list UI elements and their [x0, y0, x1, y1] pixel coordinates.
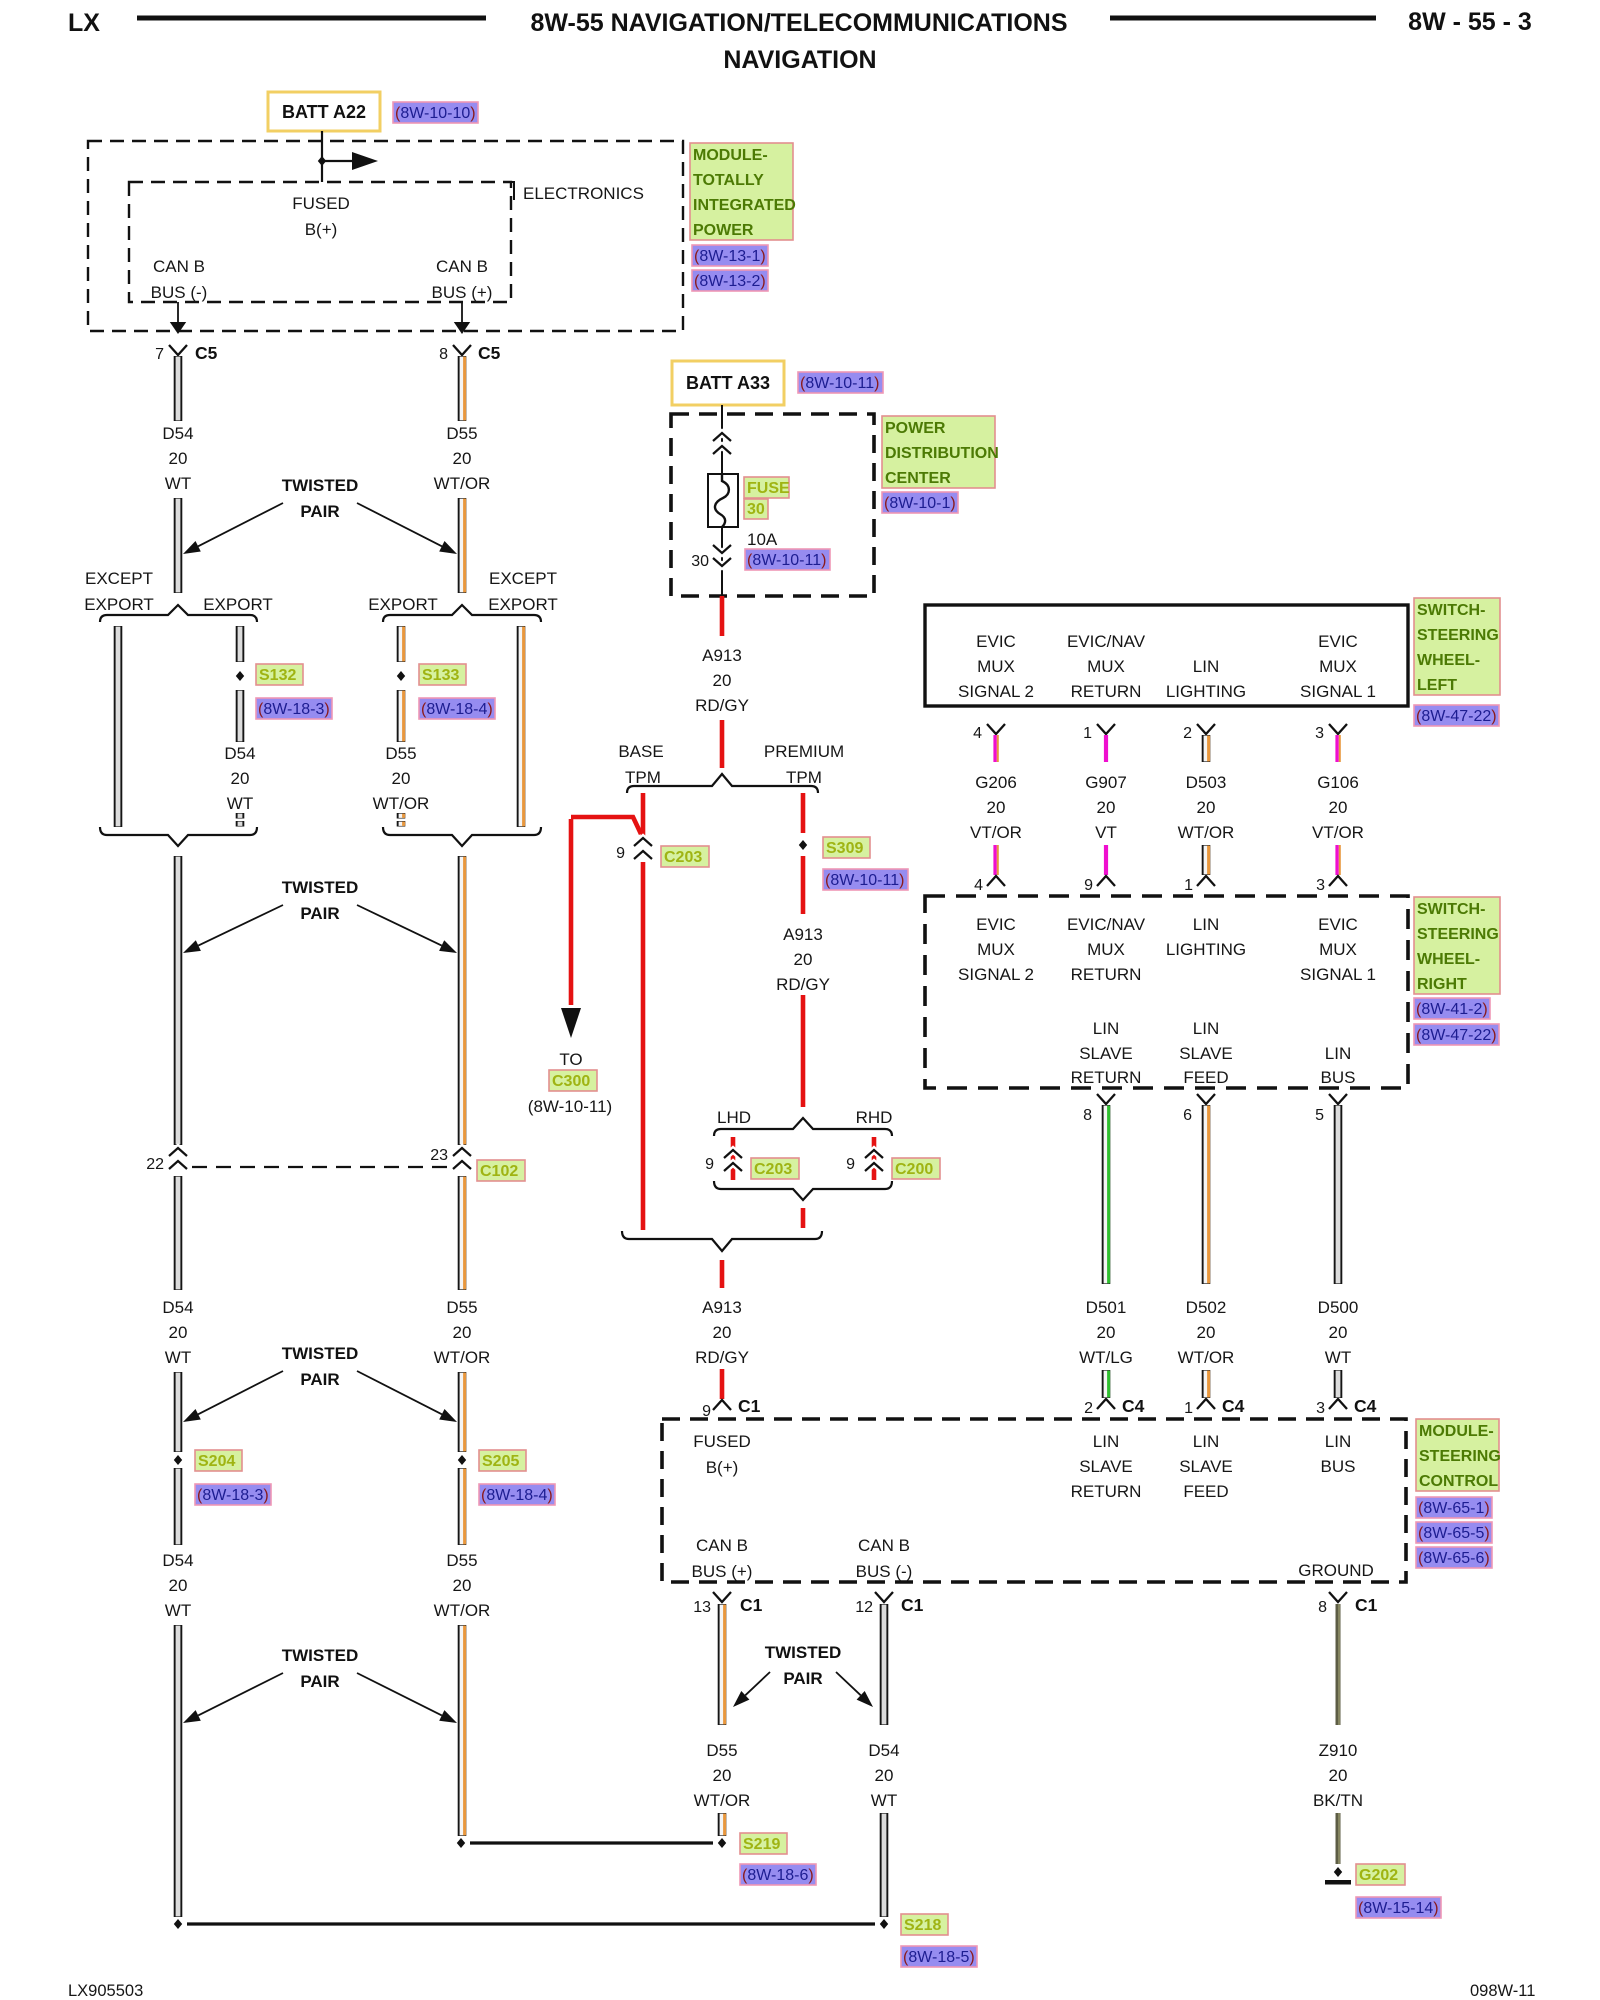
label S309 [823, 837, 870, 858]
wire RHD stub [872, 1137, 877, 1180]
ref label (8W-18-4) [419, 698, 495, 719]
wire D500 [1334, 1105, 1343, 1284]
wire G106 lower segment [1337, 845, 1340, 875]
svg-text:LIN: LIN [1193, 1019, 1219, 1038]
svg-text:WT/OR: WT/OR [1178, 1348, 1235, 1367]
wire D55 export dashed stub [401, 813, 404, 827]
svg-text:2: 2 [1084, 1400, 1093, 1417]
label TWISTED PAIR can [765, 1643, 842, 1688]
brace split D55 [383, 605, 541, 622]
svg-text:D55: D55 [385, 744, 416, 763]
brace merge D55 [383, 827, 541, 846]
connector C4 pin 2 [1084, 1396, 1145, 1417]
svg-text:(8W-18-6): (8W-18-6) [742, 1867, 814, 1884]
svg-text:TWISTED: TWISTED [282, 476, 359, 495]
label S218 [901, 1914, 948, 1935]
svg-text:D55: D55 [706, 1741, 737, 1760]
wire A913 premium long [801, 995, 806, 1107]
svg-text:D500: D500 [1318, 1298, 1359, 1317]
splice S204 [174, 1455, 182, 1465]
fuse F30 [708, 474, 738, 527]
svg-text:BK/TN: BK/TN [1313, 1791, 1363, 1810]
svg-text:EVIC/NAV: EVIC/NAV [1067, 915, 1146, 934]
splice S219 junction left [457, 1838, 465, 1848]
wire D55 segment [462, 356, 465, 421]
svg-text:3: 3 [1315, 725, 1324, 742]
arrow twisted pair bottom to D55 [357, 1673, 457, 1723]
header rule left [137, 16, 486, 21]
svg-text:EXCEPT: EXCEPT [489, 569, 557, 588]
module switch-steering wheel right dashed box [925, 896, 1408, 1088]
wire A913 base branch [641, 793, 646, 836]
svg-text:CENTER: CENTER [885, 470, 951, 487]
wire BATT A22 feed [321, 131, 323, 182]
ref label (8W-18-3) [256, 698, 332, 719]
svg-text:098W-11: 098W-11 [1470, 1982, 1535, 2000]
label EXCEPT EXPORT left [84, 569, 154, 614]
svg-text:POWER: POWER [885, 420, 946, 437]
connector pin 4 switch right top [974, 876, 1005, 894]
svg-text:9: 9 [705, 1156, 714, 1173]
svg-text:20: 20 [169, 449, 188, 468]
wire D55 can+ stub [722, 1813, 725, 1836]
arrow twisted pair to D54 [183, 503, 283, 554]
wire D55 segment [462, 1468, 465, 1545]
connector pin 6 below switch right [1183, 1094, 1215, 1124]
svg-text:30: 30 [691, 553, 709, 570]
splice S218 link wire [187, 1922, 875, 1925]
ref label (8W-18-5) [901, 1946, 977, 1967]
svg-text:EVIC: EVIC [1318, 632, 1358, 651]
svg-text:(8W-10-11): (8W-10-11) [800, 375, 879, 392]
svg-text:BASE: BASE [618, 742, 663, 761]
arrow twisted pair mid to D54 [183, 905, 283, 953]
svg-text:D55: D55 [446, 1298, 477, 1317]
splice S205 [458, 1455, 466, 1465]
svg-text:LIN: LIN [1093, 1019, 1119, 1038]
svg-text:(8W-13-1): (8W-13-1) [694, 248, 766, 265]
label BASE TPM [618, 742, 663, 787]
svg-text:TWISTED: TWISTED [282, 1646, 359, 1665]
label RHD [856, 1108, 893, 1127]
svg-text:Z910: Z910 [1319, 1741, 1358, 1760]
svg-text:(8W-10-11): (8W-10-11) [528, 1097, 612, 1116]
svg-text:C4: C4 [1222, 1396, 1245, 1416]
svg-text:D54: D54 [224, 744, 255, 763]
svg-text:B(+): B(+) [305, 220, 338, 239]
label TWISTED PAIR bottom [282, 1646, 359, 1691]
module TIPM inner dashed box [129, 182, 511, 302]
svg-text:CAN B: CAN B [858, 1536, 910, 1555]
connector C1 pin 9 [702, 1396, 761, 1420]
svg-text:LIN: LIN [1193, 657, 1219, 676]
label LIN SLAVE FEED [1179, 1019, 1233, 1087]
arrow twisted pair to D54 can [836, 1672, 873, 1707]
svg-text:STEERING: STEERING [1417, 627, 1499, 644]
module steering control dashed box [662, 1419, 1406, 1582]
svg-text:WT: WT [165, 1601, 191, 1620]
connector C5 pin 8 [439, 343, 501, 363]
ref label (8W-65-6) [1416, 1547, 1492, 1568]
connector C1 pin 13 [693, 1592, 762, 1616]
module TIPM outer dashed box [88, 141, 683, 331]
svg-text:20: 20 [169, 1323, 188, 1342]
svg-text:FEED: FEED [1183, 1482, 1228, 1501]
connector pin 3 switch right top [1316, 876, 1347, 894]
connector pin 1 switch left [1083, 724, 1115, 742]
svg-text:WT: WT [1325, 1348, 1351, 1367]
svg-text:(8W-10-11): (8W-10-11) [825, 872, 904, 889]
svg-text:20: 20 [1097, 1323, 1116, 1342]
svg-text:(8W-18-3): (8W-18-3) [258, 701, 330, 718]
svg-text:B(+): B(+) [706, 1458, 739, 1477]
svg-text:PAIR: PAIR [783, 1669, 822, 1688]
svg-text:CAN B: CAN B [153, 257, 205, 276]
svg-text:9: 9 [616, 845, 625, 862]
svg-text:A913: A913 [702, 646, 742, 665]
label CAN B BUS (+) msc [692, 1536, 753, 1581]
svg-text:S133: S133 [422, 667, 459, 684]
arrow down to pin 8 [454, 302, 470, 334]
green label MODULE-TOTALLY INTEGRATED POWER [690, 143, 796, 240]
wire G206 lower segment [995, 845, 998, 875]
label D54 20 WT [162, 1298, 193, 1367]
svg-text:12: 12 [855, 1599, 873, 1616]
label EVIC/NAV MUX RETURN left [1067, 632, 1146, 701]
label D54 20 WT can [868, 1741, 899, 1810]
svg-text:(8W-41-2): (8W-41-2) [1416, 1001, 1488, 1018]
svg-text:20: 20 [1329, 798, 1348, 817]
wire D54 segment [174, 498, 183, 593]
module switch-steering wheel left box [925, 605, 1408, 706]
label LHD [717, 1108, 751, 1127]
wire A913 to C300 [569, 819, 574, 1005]
svg-text:WT/LG: WT/LG [1079, 1348, 1133, 1367]
label 10A [747, 530, 778, 549]
svg-text:D502: D502 [1186, 1298, 1227, 1317]
green label MODULE-STEERING CONTROL [1416, 1419, 1501, 1491]
svg-text:23: 23 [430, 1147, 448, 1164]
label S132 [256, 664, 303, 685]
svg-text:(8W-47-22): (8W-47-22) [1416, 1027, 1497, 1044]
connector pin 5 below switch right [1315, 1094, 1347, 1124]
connector pin 9 switch right top [1084, 876, 1115, 894]
svg-text:C200: C200 [895, 1161, 933, 1178]
wire D55 can+ [722, 1604, 725, 1725]
label G907 20 VT [1085, 773, 1127, 842]
svg-text:LEFT: LEFT [1417, 677, 1457, 694]
svg-text:S218: S218 [904, 1917, 941, 1934]
svg-text:PAIR: PAIR [300, 1672, 339, 1691]
connector C5 pin 7 [155, 343, 218, 363]
wire D55 segment [462, 1176, 465, 1290]
label C102 [477, 1160, 525, 1181]
svg-text:6: 6 [1183, 1107, 1192, 1124]
svg-text:20: 20 [453, 449, 472, 468]
svg-text:20: 20 [453, 1323, 472, 1342]
svg-text:BUS (-): BUS (-) [856, 1562, 913, 1581]
label A913 20 RD/GY merged [695, 1298, 749, 1367]
svg-text:LHD: LHD [717, 1108, 751, 1127]
label D55 20 WT/OR [434, 424, 491, 493]
splice S132 [236, 671, 244, 681]
label D503 20 WT/OR [1178, 773, 1235, 842]
ref label (8W-10-1) [882, 492, 958, 513]
wire Z910 ground [1338, 1604, 1339, 1725]
label GROUND [1298, 1561, 1374, 1580]
header subtitle NAVIGATION [723, 46, 876, 74]
wire Z910 stub [1338, 1813, 1339, 1864]
svg-text:RIGHT: RIGHT [1417, 976, 1467, 993]
connector pin 30 chevrons [691, 545, 731, 570]
svg-text:WT: WT [227, 794, 253, 813]
wire D501 [1106, 1105, 1109, 1284]
connector C1 pin 8 [1318, 1592, 1378, 1616]
connector C203 pin 9 base [616, 838, 652, 862]
svg-text:VT/OR: VT/OR [970, 823, 1022, 842]
label C203 LHD [751, 1158, 799, 1179]
brace merge TPM [622, 1231, 822, 1251]
header page number 8W - 55 - 3 [1408, 8, 1532, 36]
svg-text:WT/OR: WT/OR [694, 1791, 751, 1810]
arrow twisted pair to D55 [357, 503, 457, 554]
connector pin 8 below switch right [1083, 1094, 1115, 1124]
label LIN SLAVE RETURN msc [1071, 1432, 1142, 1501]
label D54 20 WT export [224, 744, 255, 813]
connector chevrons battery feed [713, 433, 731, 454]
svg-text:D501: D501 [1086, 1298, 1127, 1317]
svg-text:GROUND: GROUND [1298, 1561, 1374, 1580]
ref label (8W-10-10) [393, 102, 478, 123]
svg-text:(8W-18-5): (8W-18-5) [903, 1949, 975, 1966]
svg-text:SIGNAL 1: SIGNAL 1 [1300, 682, 1376, 701]
ref label (8W-47-22) right [1414, 1024, 1499, 1045]
svg-text:STEERING: STEERING [1417, 926, 1499, 943]
svg-text:WT: WT [165, 474, 191, 493]
svg-text:MUX: MUX [977, 940, 1015, 959]
wire A913 to C1 [720, 1369, 725, 1399]
svg-text:1: 1 [1184, 877, 1193, 894]
module PDC dashed box [671, 414, 874, 596]
label FUSE 30 [744, 477, 790, 519]
green label POWER DISTRIBUTION CENTER [882, 416, 999, 488]
ground G202 [1325, 1867, 1351, 1885]
wire D54 except-export branch [114, 626, 123, 827]
wire A913 premium branch [801, 793, 806, 833]
label LIN SLAVE RETURN [1071, 1019, 1142, 1087]
wire D54 segment [174, 356, 183, 421]
svg-text:(8W-47-22): (8W-47-22) [1416, 708, 1497, 725]
wire D55 export branch [401, 626, 404, 662]
label LIN BUS msc [1321, 1432, 1356, 1476]
svg-text:C102: C102 [480, 1163, 518, 1180]
label D54 20 WT [162, 424, 193, 493]
svg-text:G907: G907 [1085, 773, 1127, 792]
svg-text:RHD: RHD [856, 1108, 893, 1127]
svg-text:MUX: MUX [1319, 940, 1357, 959]
brace split D54 [100, 605, 257, 622]
label D502 20 WT/OR [1178, 1298, 1235, 1367]
splice S133 [397, 671, 405, 681]
label S133 [419, 664, 466, 685]
label D501 20 WT/LG [1079, 1298, 1133, 1367]
svg-text:20: 20 [713, 671, 732, 690]
label EVIC MUX SIGNAL 2 left [958, 632, 1034, 701]
wire D55 long segment [462, 1625, 465, 1836]
svg-text:D55: D55 [446, 424, 477, 443]
svg-text:WT: WT [165, 1348, 191, 1367]
wire G907 lower segment [1104, 845, 1108, 875]
wire D54 export branch [236, 626, 245, 662]
arrow twisted pair to D55 can [733, 1672, 770, 1707]
wire D55 merged [462, 856, 465, 1145]
svg-text:BUS: BUS [1321, 1457, 1356, 1476]
svg-text:SLAVE: SLAVE [1079, 1457, 1133, 1476]
label C300 [549, 1070, 597, 1091]
wire A913 base branch long [641, 862, 646, 1230]
svg-text:EXPORT: EXPORT [368, 595, 438, 614]
svg-text:RD/GY: RD/GY [776, 975, 830, 994]
svg-text:20: 20 [987, 798, 1006, 817]
svg-text:(8W-65-5): (8W-65-5) [1418, 1525, 1490, 1542]
svg-text:MUX: MUX [1319, 657, 1357, 676]
svg-text:LIN: LIN [1325, 1432, 1351, 1451]
svg-text:TPM: TPM [625, 768, 661, 787]
svg-text:EXCEPT: EXCEPT [85, 569, 153, 588]
svg-text:(8W-15-14): (8W-15-14) [1358, 1900, 1439, 1917]
splice S218 junction left [174, 1919, 182, 1929]
svg-text:SIGNAL 2: SIGNAL 2 [958, 682, 1034, 701]
svg-text:D54: D54 [868, 1741, 899, 1760]
svg-text:EVIC: EVIC [1318, 915, 1358, 934]
arrow twisted pair lower to D55 [357, 1371, 457, 1422]
wire D502 [1206, 1105, 1209, 1284]
svg-text:SWITCH-: SWITCH- [1417, 901, 1485, 918]
svg-text:1: 1 [1184, 1400, 1193, 1417]
wire D54 long segment [174, 1625, 183, 1917]
label EXPORT right [368, 595, 438, 614]
svg-text:PREMIUM: PREMIUM [764, 742, 844, 761]
svg-text:A913: A913 [702, 1298, 742, 1317]
label LIN LIGHTING left [1166, 657, 1246, 701]
wire fuse output [721, 527, 723, 596]
svg-text:8: 8 [1318, 1599, 1327, 1616]
svg-text:(8W-10-11): (8W-10-11) [747, 552, 826, 569]
svg-text:S205: S205 [482, 1453, 519, 1470]
splice S218 junction right [880, 1919, 888, 1929]
svg-text:D54: D54 [162, 424, 193, 443]
wire A913 segment [720, 720, 725, 768]
wire G106 segment [1337, 735, 1340, 762]
svg-text:EVIC: EVIC [976, 632, 1016, 651]
svg-text:G202: G202 [1359, 1867, 1398, 1884]
svg-text:WT/OR: WT/OR [1178, 823, 1235, 842]
svg-text:LIN: LIN [1325, 1044, 1351, 1063]
svg-text:CAN B: CAN B [436, 257, 488, 276]
ref label (8W-10-11) fuse [745, 549, 830, 570]
svg-text:20: 20 [169, 1576, 188, 1595]
svg-text:RD/GY: RD/GY [695, 1348, 749, 1367]
svg-text:20: 20 [1197, 798, 1216, 817]
wire D55 except-export branch [521, 626, 524, 827]
arrow to C300 [561, 1008, 581, 1038]
battery feed box BATT A22 [268, 92, 380, 131]
connector C1 pin 12 [855, 1592, 923, 1616]
svg-text:WT/OR: WT/OR [434, 474, 491, 493]
svg-text:RD/GY: RD/GY [695, 696, 749, 715]
svg-text:SLAVE: SLAVE [1179, 1457, 1233, 1476]
wire A913 premium segment [801, 856, 806, 914]
svg-text:LX905503: LX905503 [68, 1982, 143, 2000]
svg-text:(8W-18-4): (8W-18-4) [421, 701, 493, 718]
ref label (8W-18-3) [195, 1484, 271, 1505]
ref label (8W-10-11) [798, 372, 883, 393]
arrow twisted pair mid to D55 [357, 905, 457, 953]
svg-text:(8W-13-2): (8W-13-2) [694, 273, 766, 290]
arrow twisted pair lower to D54 [183, 1371, 283, 1422]
connector C102 pin 23 [430, 1147, 471, 1169]
ref label (8W-13-1) [692, 245, 768, 266]
label D500 20 WT [1318, 1298, 1359, 1367]
wire G907 segment [1104, 735, 1108, 762]
label G206 20 VT/OR [970, 773, 1022, 842]
svg-text:POWER: POWER [693, 222, 754, 239]
splice S219 link wire [470, 1841, 713, 1844]
svg-text:3: 3 [1316, 1400, 1325, 1417]
svg-text:G206: G206 [975, 773, 1017, 792]
ref label (8W-47-22) left [1414, 705, 1499, 726]
svg-text:DISTRIBUTION: DISTRIBUTION [885, 445, 999, 462]
label C203 [661, 846, 709, 867]
svg-text:20: 20 [794, 950, 813, 969]
svg-text:MODULE-: MODULE- [1419, 1423, 1494, 1440]
svg-text:20: 20 [875, 1766, 894, 1785]
svg-text:EVIC/NAV: EVIC/NAV [1067, 632, 1146, 651]
svg-text:PAIR: PAIR [300, 1370, 339, 1389]
header label LX [68, 9, 100, 37]
svg-text:TWISTED: TWISTED [282, 878, 359, 897]
svg-text:BATT A33: BATT A33 [686, 373, 770, 393]
label S205 [479, 1450, 526, 1471]
label EVIC/NAV MUX RETURN right [1067, 915, 1146, 984]
svg-text:22: 22 [146, 1156, 164, 1173]
wire D500 lower [1334, 1370, 1343, 1398]
wire D55 export branch segment [401, 690, 404, 742]
svg-text:SLAVE: SLAVE [1179, 1044, 1233, 1063]
svg-text:MUX: MUX [977, 657, 1015, 676]
battery feed box BATT A33 [672, 361, 784, 405]
svg-text:G106: G106 [1317, 773, 1359, 792]
svg-text:C203: C203 [664, 849, 702, 866]
connector C102 pin 22 [146, 1148, 187, 1173]
wire D54 segment [174, 1468, 183, 1545]
wire D503 segment [1206, 735, 1209, 762]
wire G206 segment [995, 735, 998, 762]
connector pin 2 switch left [1183, 724, 1215, 742]
label C200 [892, 1158, 940, 1179]
svg-text:C203: C203 [754, 1161, 792, 1178]
arrow down to pin 7 [170, 302, 186, 334]
svg-text:8W-55 NAVIGATION/TELECOMMUNICA: 8W-55 NAVIGATION/TELECOMMUNICATIONS [531, 9, 1068, 37]
brace split TPM [627, 774, 818, 793]
svg-text:TWISTED: TWISTED [765, 1643, 842, 1662]
svg-text:(8W-18-4): (8W-18-4) [481, 1487, 553, 1504]
footer sheet code LX905503 [68, 1982, 143, 2000]
svg-text:D54: D54 [162, 1551, 193, 1570]
svg-text:EXPORT: EXPORT [84, 595, 154, 614]
svg-text:A913: A913 [783, 925, 823, 944]
svg-text:C1: C1 [740, 1595, 763, 1615]
